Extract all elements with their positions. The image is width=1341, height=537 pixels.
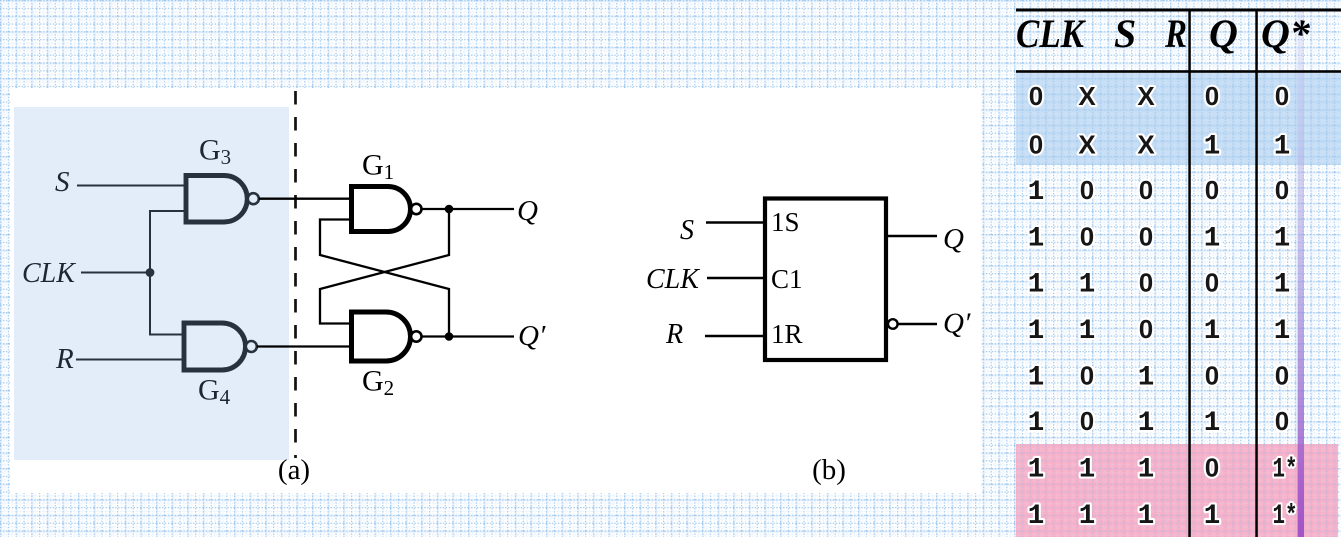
svg-text:1: 1 (1274, 132, 1291, 163)
svg-text:(a): (a) (278, 454, 310, 486)
wire G4 output to G2 (257, 345, 353, 347)
svg-text:1: 1 (1204, 316, 1221, 347)
svg-text:CLK: CLK (22, 258, 76, 289)
svg-text:CLK: CLK (646, 264, 700, 295)
svg-text:X: X (1078, 81, 1096, 111)
wire Q output (422, 208, 515, 210)
svg-text:0: 0 (1139, 314, 1153, 344)
svg-text:S: S (55, 166, 70, 198)
svg-text:1: 1 (1204, 408, 1221, 439)
NAND gate G3 (186, 176, 259, 223)
svg-text:0: 0 (1139, 268, 1153, 298)
svg-text:0: 0 (1080, 361, 1094, 391)
table row 3 (1028, 175, 1289, 208)
table pink highlight band (1016, 444, 1338, 537)
flip-flop symbol body (765, 199, 886, 361)
svg-text:1: 1 (1079, 270, 1096, 301)
svg-text:1: 1 (1274, 270, 1291, 301)
svg-text:0: 0 (1205, 175, 1219, 205)
svg-text:0: 0 (1205, 453, 1219, 483)
svg-text:1: 1 (1028, 177, 1045, 208)
svg-text:0: 0 (1139, 175, 1153, 205)
svg-text:R: R (55, 343, 74, 375)
svg-text:1: 1 (1028, 455, 1045, 486)
wire Q' output (422, 335, 515, 337)
svg-text:S: S (1114, 11, 1136, 56)
svg-text:1: 1 (1274, 316, 1291, 347)
svg-text:0: 0 (1275, 406, 1289, 436)
NAND gate G2 (352, 312, 422, 361)
svg-text:Q*: Q* (1261, 11, 1311, 56)
wire Q output (b) (886, 235, 937, 237)
svg-text:1: 1 (1079, 316, 1096, 347)
svg-text:1: 1 (1138, 408, 1155, 439)
table row 5 (1028, 268, 1291, 301)
svg-text:Q: Q (943, 223, 964, 255)
svg-text:1: 1 (1028, 501, 1045, 532)
svg-text:0: 0 (1205, 361, 1219, 391)
table row 4 (1028, 222, 1291, 255)
wire CLK (81, 272, 150, 274)
boundary dashed line (294, 91, 297, 458)
svg-text:0: 0 (1080, 406, 1094, 436)
svg-text:0: 0 (1080, 222, 1094, 252)
table column line 1 (1188, 9, 1191, 537)
table row 9 (1028, 453, 1298, 486)
svg-text:1: 1 (1138, 363, 1155, 394)
table row 7 (1028, 361, 1289, 394)
wire R to G4 (76, 359, 186, 361)
svg-text:1: 1 (1079, 501, 1096, 532)
svg-text:0: 0 (1080, 175, 1094, 205)
svg-text:1: 1 (1028, 224, 1045, 255)
svg-text:1R: 1R (771, 319, 803, 349)
table header separator (1016, 70, 1341, 73)
svg-text:1: 1 (1138, 501, 1155, 532)
svg-text:0: 0 (1205, 268, 1219, 298)
junction dot CLK node (146, 268, 155, 277)
table row 10 (1028, 501, 1298, 532)
svg-text:1: 1 (1028, 316, 1045, 347)
svg-text:0: 0 (1275, 361, 1289, 391)
svg-text:0: 0 (1275, 175, 1289, 205)
svg-text:Q: Q (517, 195, 538, 227)
purple highlight stripe (1298, 10, 1304, 537)
node Q junction (445, 205, 454, 214)
svg-text:Q′: Q′ (943, 308, 971, 340)
svg-text:1: 1 (1204, 501, 1221, 532)
svg-text:0: 0 (1139, 222, 1153, 252)
svg-text:0: 0 (1029, 130, 1043, 160)
svg-text:1: 1 (1079, 455, 1096, 486)
wire R to 1R (705, 335, 765, 337)
table row 1 (1029, 81, 1289, 111)
svg-text:1: 1 (1028, 270, 1045, 301)
wire S to 1S (706, 221, 765, 223)
table row 6 (1028, 314, 1291, 347)
svg-text:1: 1 (1028, 408, 1045, 439)
svg-text:Q: Q (1209, 11, 1238, 56)
svg-text:1*: 1* (1273, 501, 1298, 532)
svg-text:S: S (680, 215, 694, 246)
svg-text:R: R (1164, 11, 1187, 56)
wire CLK to C1 (707, 277, 765, 279)
wire CLK branch to G4 upper input (150, 273, 186, 335)
svg-text:CLK: CLK (1016, 11, 1086, 56)
svg-text:X: X (1137, 130, 1155, 160)
svg-text:1S: 1S (771, 207, 800, 237)
table row 2 (1029, 130, 1290, 163)
table top border (1016, 9, 1341, 12)
svg-text:C1: C1 (771, 264, 803, 294)
wire S to G3 (77, 185, 188, 187)
svg-text:1*: 1* (1273, 455, 1298, 486)
svg-text:1: 1 (1204, 132, 1221, 163)
shaded clock-stage region (14, 107, 289, 460)
svg-text:1: 1 (1028, 363, 1045, 394)
svg-text:Q′: Q′ (518, 320, 546, 352)
white panel (10, 88, 981, 493)
NAND gate G1 (352, 187, 422, 232)
svg-text:0: 0 (1205, 81, 1219, 111)
table blue highlight band (1016, 73, 1341, 165)
table row 8 (1028, 406, 1289, 439)
svg-text:R: R (665, 319, 683, 350)
svg-text:1: 1 (1274, 224, 1291, 255)
node Q' junction (445, 332, 454, 341)
table column line 2 (1255, 9, 1258, 537)
svg-text:1: 1 (1204, 224, 1221, 255)
NAND gate G4 (184, 323, 257, 370)
svg-text:(b): (b) (812, 454, 846, 486)
svg-text:X: X (1137, 81, 1155, 111)
svg-text:0: 0 (1275, 81, 1289, 111)
inverter bubble Q' (b) (888, 319, 898, 329)
svg-text:X: X (1078, 130, 1096, 160)
svg-text:0: 0 (1029, 81, 1043, 111)
wire Q' output (b) (898, 323, 937, 325)
wire CLK branch to G3 lower input (150, 211, 188, 273)
wire cross-coupling Q' to G1 input (320, 220, 449, 337)
wire cross-coupling Q to G2 input (320, 209, 449, 324)
wire G3 output to G1 (259, 198, 353, 200)
svg-text:1: 1 (1138, 455, 1155, 486)
